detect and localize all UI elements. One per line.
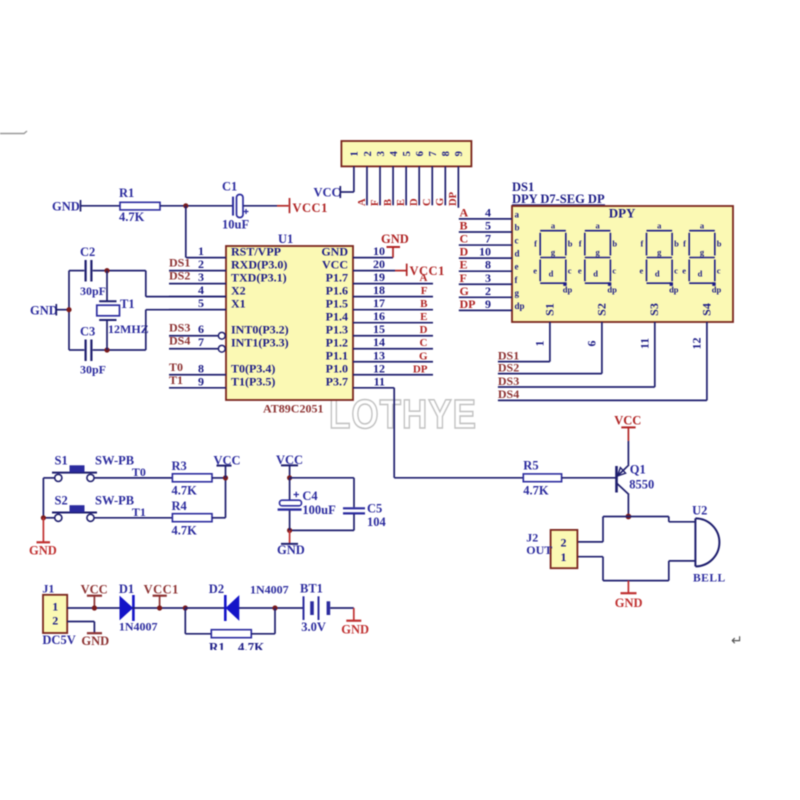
- svg-text:T0: T0: [132, 465, 146, 479]
- svg-text:9: 9: [454, 151, 465, 156]
- svg-text:e: e: [578, 266, 582, 276]
- svg-text:SW-PB: SW-PB: [95, 453, 134, 467]
- svg-text:GND: GND: [29, 544, 57, 558]
- svg-text:2: 2: [561, 535, 567, 549]
- svg-text:D2: D2: [209, 582, 224, 596]
- svg-text:f: f: [640, 239, 643, 249]
- svg-text:GND: GND: [277, 543, 305, 557]
- svg-text:F: F: [421, 285, 428, 297]
- svg-text:7: 7: [428, 151, 439, 156]
- svg-text:11: 11: [374, 374, 385, 388]
- svg-text:b: b: [515, 222, 520, 232]
- svg-text:3: 3: [376, 151, 387, 156]
- svg-text:G: G: [435, 198, 446, 206]
- svg-text:DS2: DS2: [169, 269, 190, 283]
- svg-text:11: 11: [638, 338, 652, 349]
- svg-text:2: 2: [52, 614, 58, 628]
- svg-text:D1: D1: [119, 582, 134, 596]
- svg-text:15: 15: [373, 322, 385, 336]
- svg-text:C1: C1: [222, 180, 237, 194]
- svg-text:1: 1: [561, 550, 567, 564]
- svg-text:T0: T0: [169, 360, 183, 374]
- svg-text:VCC: VCC: [314, 186, 341, 200]
- svg-text:16: 16: [373, 309, 385, 323]
- svg-text:GND: GND: [381, 232, 409, 246]
- svg-text:P1.4: P1.4: [326, 310, 348, 324]
- svg-text:RST/VPP: RST/VPP: [231, 244, 281, 258]
- svg-text:A: A: [357, 198, 368, 206]
- svg-text:G: G: [460, 284, 469, 298]
- svg-text:C2: C2: [80, 245, 95, 259]
- svg-text:4: 4: [198, 283, 204, 297]
- svg-text:30pF: 30pF: [80, 363, 106, 377]
- svg-text:100uF: 100uF: [302, 503, 336, 517]
- svg-text:DS1: DS1: [169, 256, 190, 270]
- svg-text:b: b: [717, 239, 722, 249]
- svg-text:19: 19: [373, 270, 385, 284]
- svg-text:12: 12: [690, 338, 704, 350]
- svg-text:U2: U2: [692, 504, 707, 518]
- svg-text:Q1: Q1: [630, 463, 646, 477]
- svg-text:S1: S1: [55, 453, 68, 467]
- svg-text:7: 7: [198, 335, 204, 349]
- svg-text:AT89C2051: AT89C2051: [263, 402, 323, 416]
- svg-text:b: b: [674, 239, 679, 249]
- svg-text:a: a: [657, 220, 662, 230]
- svg-text:9: 9: [198, 374, 204, 388]
- svg-text:b: b: [612, 239, 617, 249]
- svg-text:1: 1: [198, 244, 204, 258]
- svg-text:VCC: VCC: [614, 414, 641, 428]
- svg-text:f: f: [579, 239, 582, 249]
- svg-text:R1: R1: [119, 186, 134, 200]
- svg-text:c: c: [674, 266, 678, 276]
- svg-text:8: 8: [441, 151, 452, 156]
- svg-text:e: e: [640, 266, 644, 276]
- svg-text:5: 5: [402, 151, 413, 156]
- svg-text:E: E: [396, 199, 407, 206]
- svg-text:SW-PB: SW-PB: [95, 493, 134, 507]
- svg-text:12MHZ: 12MHZ: [108, 322, 149, 336]
- svg-text:VCC: VCC: [322, 257, 348, 271]
- svg-text:1: 1: [52, 600, 58, 614]
- svg-text:c: c: [717, 266, 721, 276]
- svg-text:B: B: [383, 199, 394, 206]
- svg-text:4.7K: 4.7K: [172, 523, 198, 537]
- svg-text:DS4: DS4: [498, 387, 519, 401]
- svg-text:C3: C3: [80, 325, 95, 339]
- svg-text:10: 10: [373, 244, 385, 258]
- svg-text:A: A: [460, 205, 469, 219]
- svg-text:e: e: [515, 262, 519, 272]
- svg-text:D: D: [420, 324, 428, 336]
- svg-text:D: D: [460, 245, 469, 259]
- svg-text:GND: GND: [30, 304, 58, 318]
- svg-text:DS2: DS2: [498, 360, 519, 374]
- svg-text:T1: T1: [169, 373, 183, 387]
- svg-text:2: 2: [485, 284, 491, 298]
- svg-text:BELL: BELL: [693, 573, 726, 585]
- svg-text:6: 6: [198, 322, 204, 336]
- svg-text:7: 7: [485, 232, 491, 246]
- svg-text:DS4: DS4: [169, 334, 190, 348]
- svg-text:17: 17: [373, 296, 385, 310]
- svg-text:T0(P3.4): T0(P3.4): [231, 362, 275, 376]
- svg-text:DS3: DS3: [498, 374, 519, 388]
- svg-text:INT1(P3.3): INT1(P3.3): [231, 336, 289, 350]
- svg-text:2: 2: [363, 151, 374, 156]
- svg-text:GND: GND: [81, 634, 109, 648]
- svg-text:e: e: [533, 266, 537, 276]
- svg-text:13: 13: [373, 348, 385, 362]
- svg-text:DP: DP: [460, 297, 476, 311]
- svg-text:OUT: OUT: [526, 543, 552, 557]
- svg-text:INT0(P3.2): INT0(P3.2): [231, 323, 289, 337]
- svg-text:C5: C5: [367, 502, 382, 516]
- svg-text:4.7K: 4.7K: [119, 210, 145, 224]
- svg-text:4.7K: 4.7K: [523, 484, 549, 498]
- svg-text:1: 1: [350, 151, 361, 156]
- svg-text:e: e: [682, 266, 686, 276]
- svg-text:3: 3: [198, 270, 204, 284]
- svg-text:P1.2: P1.2: [326, 336, 348, 350]
- svg-text:d: d: [655, 269, 660, 279]
- svg-text:E: E: [420, 311, 427, 323]
- svg-text:14: 14: [373, 335, 385, 349]
- svg-text:10uF: 10uF: [222, 218, 249, 232]
- svg-text:J1: J1: [42, 582, 54, 596]
- svg-text:S1: S1: [542, 303, 556, 316]
- svg-text:B: B: [420, 298, 428, 310]
- svg-text:3: 3: [485, 271, 491, 285]
- svg-text:20: 20: [373, 257, 385, 271]
- svg-text:S2: S2: [55, 493, 68, 507]
- svg-text:a: a: [515, 209, 520, 219]
- svg-text:P3.7: P3.7: [326, 375, 348, 389]
- svg-text:VCC1: VCC1: [144, 583, 179, 597]
- svg-text:F: F: [460, 271, 467, 285]
- svg-text:S2: S2: [594, 303, 608, 316]
- svg-text:104: 104: [367, 515, 387, 529]
- svg-text:DS3: DS3: [169, 321, 190, 335]
- svg-text:dp: dp: [712, 285, 722, 295]
- svg-text:dp: dp: [563, 285, 573, 295]
- svg-text:DP: DP: [413, 363, 428, 375]
- svg-text:X1: X1: [231, 296, 246, 310]
- svg-text:F: F: [370, 200, 381, 206]
- svg-text:D: D: [409, 198, 420, 206]
- svg-text:R5: R5: [523, 459, 538, 473]
- svg-text:C4: C4: [302, 489, 318, 503]
- svg-text:C: C: [422, 198, 433, 206]
- svg-text:f: f: [683, 239, 686, 249]
- svg-text:C: C: [460, 232, 469, 246]
- svg-text:5: 5: [485, 218, 491, 232]
- svg-text:1N4007: 1N4007: [119, 620, 158, 634]
- svg-text:6: 6: [585, 341, 599, 347]
- svg-text:6: 6: [415, 151, 426, 156]
- svg-text:g: g: [657, 247, 662, 257]
- svg-text:a: a: [595, 220, 600, 230]
- svg-text:T1(P3.5): T1(P3.5): [231, 375, 275, 389]
- svg-text:S4: S4: [699, 303, 713, 316]
- svg-text:10: 10: [479, 245, 491, 259]
- svg-text:DC5V: DC5V: [42, 633, 75, 647]
- svg-text:c: c: [568, 266, 572, 276]
- svg-text:T1: T1: [132, 505, 146, 519]
- svg-text:BT1: BT1: [300, 582, 323, 596]
- svg-text:GND: GND: [321, 244, 348, 258]
- svg-text:g: g: [595, 247, 600, 257]
- svg-text:d: d: [549, 269, 554, 279]
- svg-text:P1.5: P1.5: [326, 296, 348, 310]
- svg-text:R4: R4: [172, 499, 188, 513]
- svg-text:↵: ↵: [731, 632, 743, 648]
- svg-text:R3: R3: [172, 459, 187, 473]
- svg-text:T1: T1: [120, 297, 135, 311]
- svg-text:dp: dp: [669, 285, 679, 295]
- svg-text:4.7K: 4.7K: [172, 483, 198, 497]
- svg-text:P1.1: P1.1: [326, 349, 348, 363]
- svg-text:G: G: [419, 350, 428, 362]
- svg-text:8: 8: [198, 361, 204, 375]
- svg-text:VCC1: VCC1: [293, 201, 328, 215]
- svg-text:P1.0: P1.0: [326, 362, 348, 376]
- svg-text:30pF: 30pF: [80, 284, 106, 298]
- svg-text:B: B: [460, 218, 468, 232]
- svg-text:DPY D7-SEG DP: DPY D7-SEG DP: [512, 192, 605, 206]
- svg-text:1: 1: [533, 341, 547, 347]
- svg-text:8: 8: [485, 258, 491, 272]
- svg-text:S3: S3: [647, 303, 661, 316]
- svg-text:DP: DP: [448, 191, 459, 206]
- svg-text:4: 4: [389, 150, 400, 156]
- svg-text:E: E: [460, 258, 468, 272]
- svg-text:P1.6: P1.6: [326, 283, 348, 297]
- svg-text:dp: dp: [515, 301, 525, 311]
- svg-text:d: d: [515, 249, 520, 259]
- svg-text:12: 12: [373, 361, 385, 375]
- svg-text:8550: 8550: [629, 478, 654, 492]
- svg-text:dp: dp: [607, 285, 617, 295]
- svg-text:3.0V: 3.0V: [301, 620, 326, 634]
- svg-text:c: c: [515, 236, 519, 246]
- svg-text:C: C: [420, 337, 428, 349]
- svg-text:A: A: [420, 272, 428, 284]
- svg-text:TXD(P3.1): TXD(P3.1): [231, 270, 287, 284]
- svg-text:P1.7: P1.7: [326, 270, 348, 284]
- svg-text:2: 2: [198, 257, 204, 271]
- svg-text:VCC: VCC: [81, 583, 108, 597]
- svg-text:DPY: DPY: [609, 206, 636, 221]
- svg-text:GND: GND: [52, 200, 80, 214]
- svg-text:d: d: [698, 269, 703, 279]
- svg-text:c: c: [612, 266, 616, 276]
- svg-text:f: f: [534, 239, 537, 249]
- svg-text:18: 18: [373, 283, 385, 297]
- svg-text:g: g: [515, 288, 520, 298]
- svg-text:RXD(P3.0): RXD(P3.0): [231, 257, 287, 271]
- svg-text:P1.3: P1.3: [326, 323, 348, 337]
- svg-text:9: 9: [485, 297, 491, 311]
- svg-text:d: d: [593, 269, 598, 279]
- svg-text:5: 5: [198, 296, 204, 310]
- svg-text:4: 4: [485, 205, 491, 219]
- svg-text:GND: GND: [341, 623, 369, 637]
- svg-text:GND: GND: [615, 596, 643, 610]
- svg-text:X2: X2: [231, 283, 246, 297]
- svg-text:b: b: [568, 239, 573, 249]
- svg-text:1N4007: 1N4007: [250, 583, 289, 597]
